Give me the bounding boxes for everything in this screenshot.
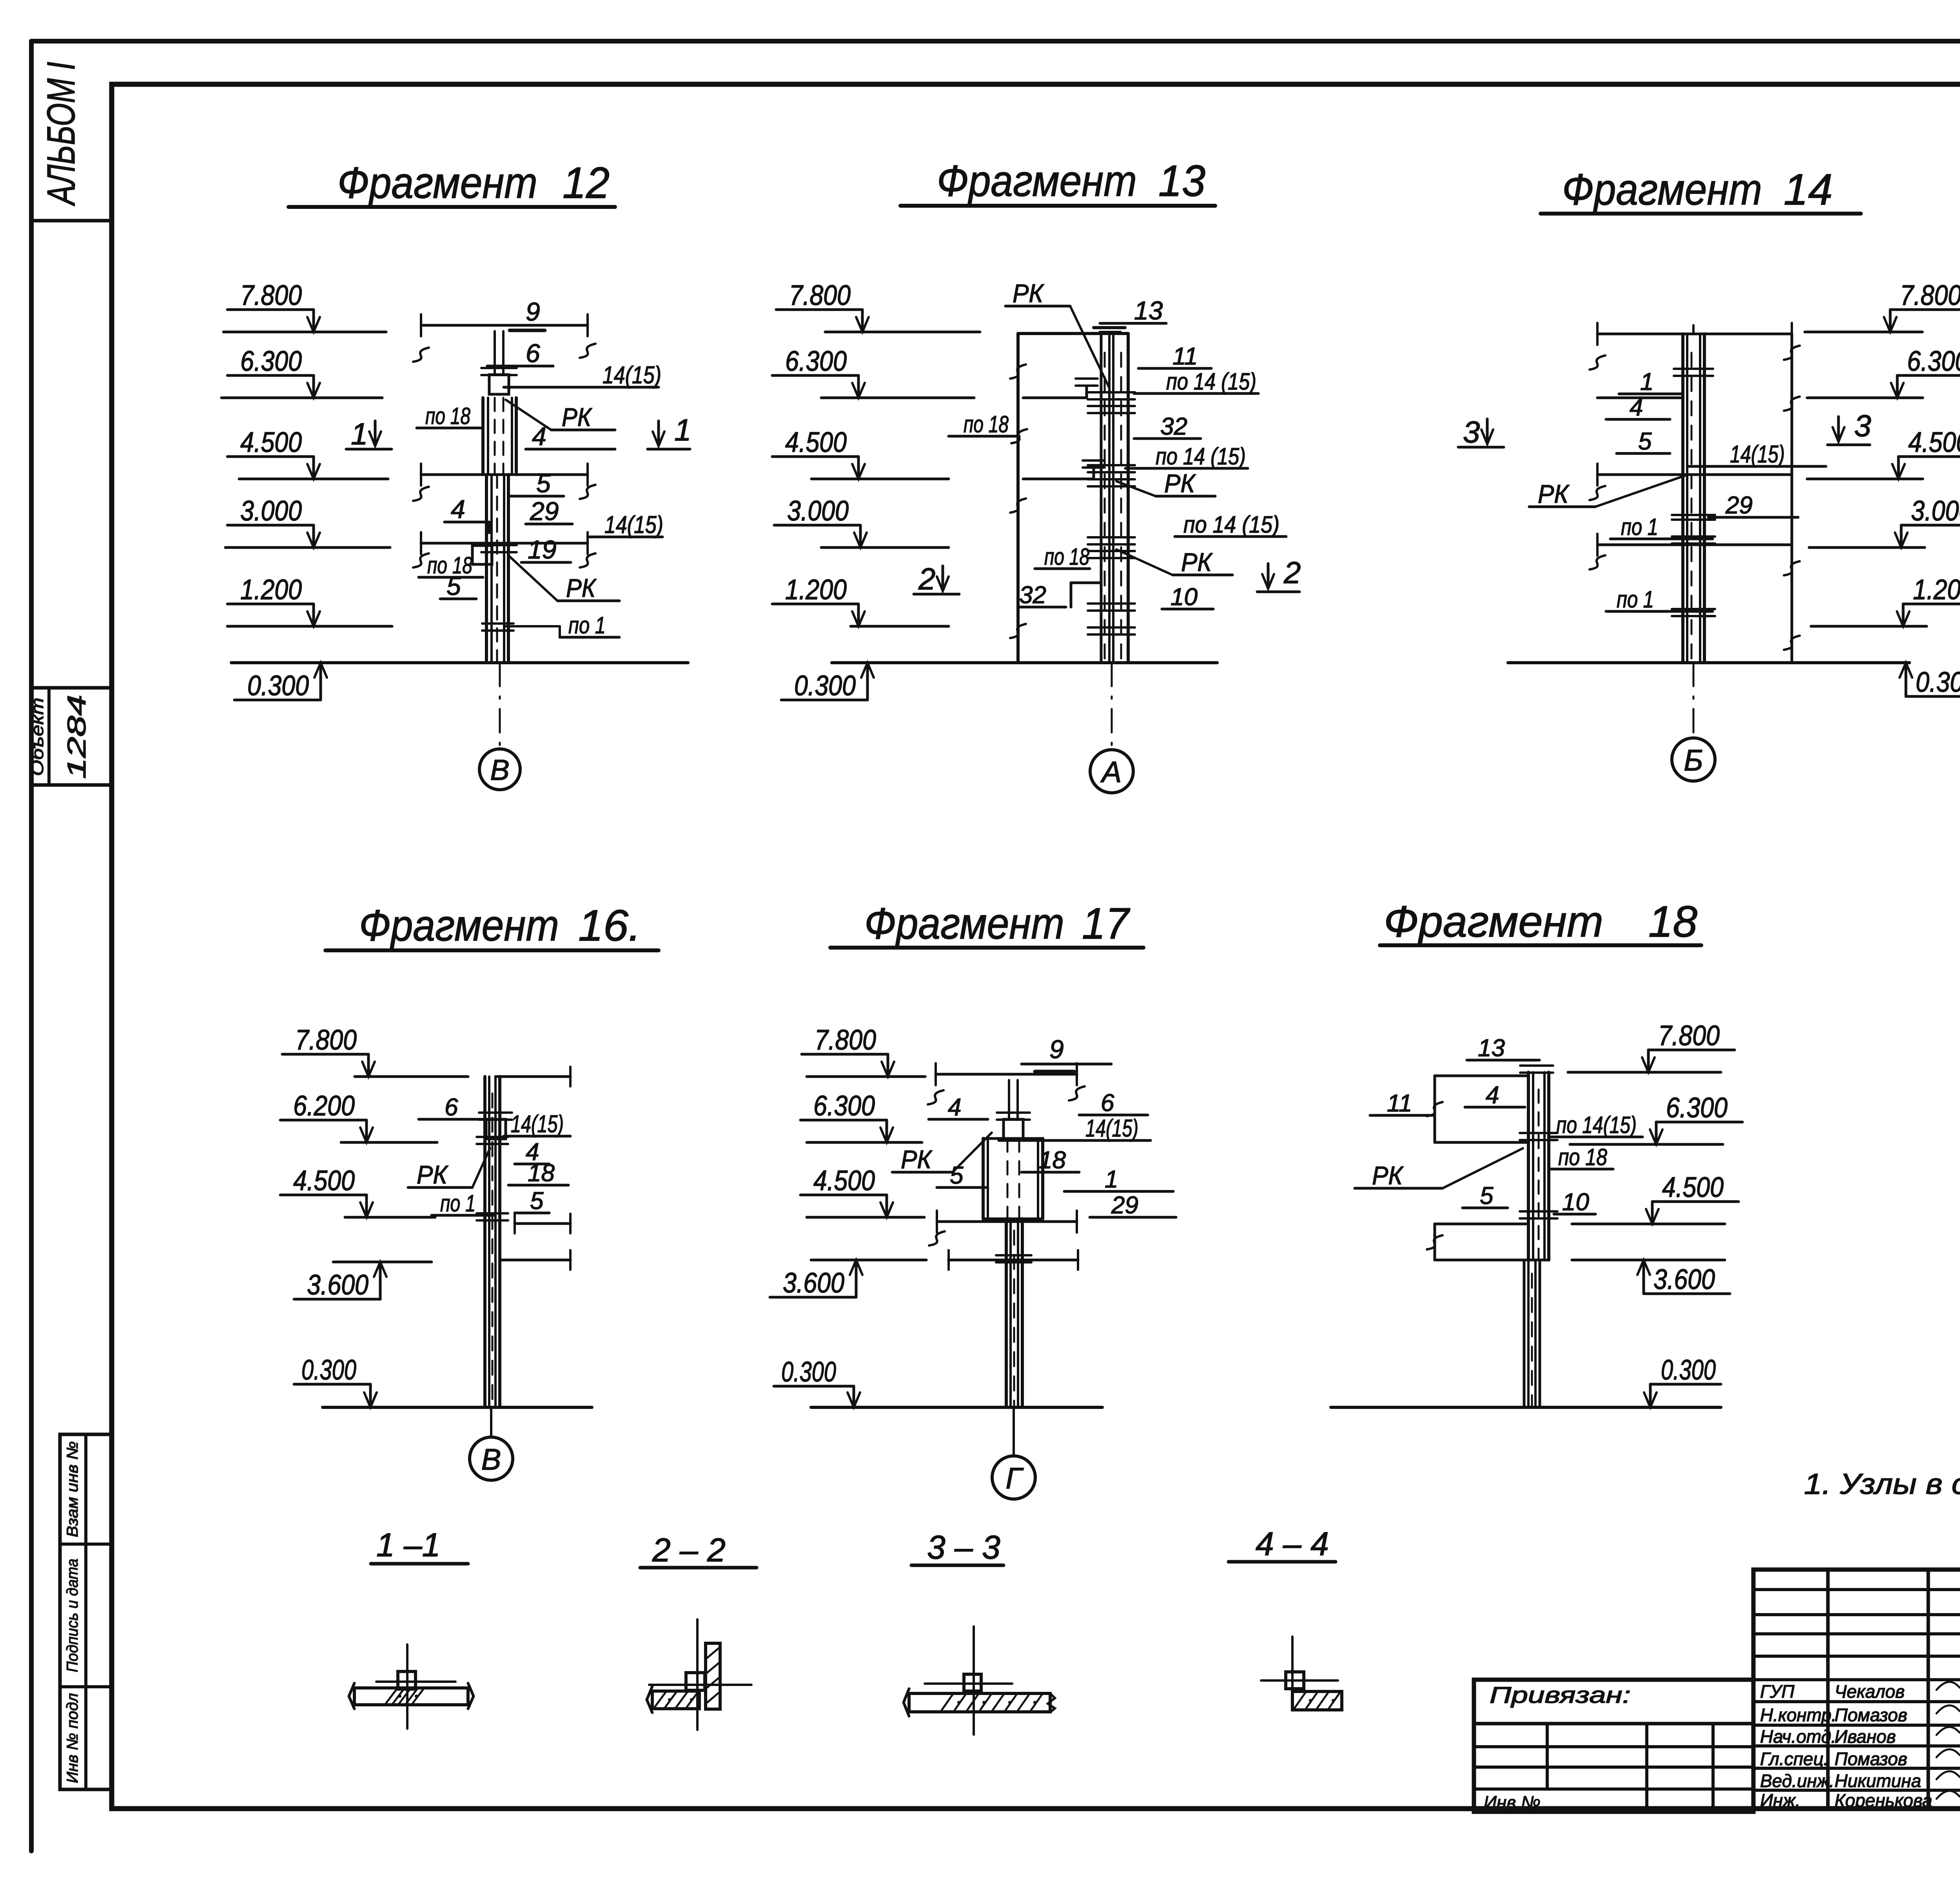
svg-text:Объект: Объект: [28, 698, 47, 776]
svg-text:5: 5: [1638, 428, 1652, 455]
svg-text:7.800: 7.800: [295, 1024, 357, 1056]
svg-text:Инв № подл: Инв № подл: [64, 1693, 81, 1783]
svg-text:Чекалов: Чекалов: [1835, 1681, 1905, 1702]
svg-text:6.300: 6.300: [785, 346, 847, 377]
frag18 level 4.500: [1652, 1200, 1739, 1203]
svg-text:29: 29: [1111, 1192, 1138, 1219]
svg-text:Привязан:: Привязан:: [1490, 1682, 1631, 1708]
svg-text:5: 5: [1480, 1182, 1494, 1209]
svg-text:13: 13: [1158, 156, 1205, 205]
detail 4-4 centerline: [1291, 1637, 1294, 1693]
svg-text:14: 14: [1784, 165, 1833, 214]
svg-text:6.300: 6.300: [813, 1090, 875, 1122]
frag13 axis circle А: [1090, 750, 1133, 793]
frag13 level 7.800: [776, 308, 862, 311]
svg-text:0.300: 0.300: [301, 1354, 356, 1386]
svg-text:Фрагмент: Фрагмент: [1384, 897, 1603, 946]
svg-text:18: 18: [1648, 897, 1697, 946]
svg-text:Б: Б: [1684, 744, 1703, 777]
svg-text:4: 4: [532, 422, 546, 451]
frag17 shelf 3.600: [811, 1259, 926, 1262]
frag16 panel: [483, 1077, 486, 1407]
frag13 level 4.500: [772, 455, 858, 458]
svg-text:14(15): 14(15): [604, 511, 663, 538]
svg-text:32: 32: [1019, 582, 1046, 609]
detail 2-2 centerline: [696, 1619, 699, 1730]
svg-text:по 1: по 1: [1617, 586, 1654, 613]
frag16 level 6.200: [280, 1119, 367, 1122]
frag16 bracket: [486, 1119, 506, 1139]
svg-text:7.800: 7.800: [1658, 1020, 1720, 1051]
svg-text:ГУП: ГУП: [1760, 1681, 1795, 1702]
frag18 level 3.600: [1644, 1293, 1730, 1295]
frag12 lower panel: [485, 475, 488, 663]
detail 1-1 anchor square: [398, 1671, 416, 1689]
frag18 wide panel: [1527, 1072, 1530, 1260]
svg-text:13: 13: [1134, 296, 1163, 325]
svg-text:32: 32: [1160, 413, 1187, 440]
svg-text:13: 13: [1478, 1035, 1505, 1062]
svg-text:4: 4: [948, 1094, 961, 1121]
frag13 level 3.000: [774, 524, 860, 527]
svg-text:РК: РК: [1372, 1161, 1404, 1190]
svg-text:4.500: 4.500: [293, 1165, 355, 1196]
svg-text:Взам инв №: Взам инв №: [64, 1441, 81, 1537]
frag12 level 6.300: [227, 374, 314, 377]
frag12 level 3.000: [227, 524, 314, 527]
svg-text:7.800: 7.800: [1900, 280, 1960, 311]
frag16 top dimension line: [495, 1075, 570, 1078]
frag16 lower tick line: [500, 1259, 570, 1262]
svg-text:по 1: по 1: [568, 612, 606, 638]
signature table name rows: [1753, 1700, 1960, 1703]
svg-text:12: 12: [563, 158, 610, 207]
frag16 ground line: [323, 1406, 592, 1409]
svg-text:4.500: 4.500: [785, 427, 847, 458]
svg-text:Никитина: Никитина: [1835, 1771, 1921, 1791]
svg-text:Иванов: Иванов: [1835, 1726, 1896, 1747]
sidebar object box: [31, 688, 112, 785]
svg-text:7.800: 7.800: [240, 280, 302, 311]
frag13 hook 6300: [1023, 397, 1087, 399]
frag18 narrow panel: [1523, 1260, 1526, 1407]
svg-text:4: 4: [451, 495, 465, 524]
svg-text:1284: 1284: [62, 695, 91, 779]
svg-text:Фрагмент: Фрагмент: [937, 156, 1137, 205]
detail 4-4 slab bar: [1292, 1691, 1342, 1710]
svg-text:0.300: 0.300: [1661, 1354, 1716, 1386]
frag13 hook 4500: [1023, 478, 1094, 480]
detail 3-3 slab bar: [909, 1693, 1050, 1712]
detail 2-2 wall bar vertical: [706, 1643, 720, 1709]
frag14 axis centerline: [1693, 663, 1695, 738]
svg-text:14(15): 14(15): [1085, 1115, 1138, 1142]
frag17 level 7.800: [802, 1053, 888, 1056]
frag14 right dim vertical: [1791, 334, 1793, 663]
sidebar album box: [31, 219, 112, 223]
svg-text:6.300: 6.300: [1666, 1092, 1728, 1124]
frag13 level 1.200: [772, 603, 858, 605]
frag18 level 6.300: [1656, 1121, 1742, 1124]
svg-text:Вед.инж.: Вед.инж.: [1760, 1771, 1834, 1791]
svg-text:3: 3: [1854, 408, 1871, 443]
svg-text:по 18: по 18: [425, 403, 470, 429]
sidebar stamp divider 2: [60, 1685, 111, 1688]
frag18 top-left box: [1435, 1075, 1528, 1077]
frag14 top dimension line: [1597, 333, 1792, 335]
frag13 level 0.300: [781, 699, 867, 702]
svg-text:4.500: 4.500: [240, 427, 302, 458]
frag13 left edge line: [1016, 334, 1020, 663]
frag13 tick cluster 1200: [1088, 602, 1135, 605]
svg-text:14(15): 14(15): [603, 362, 661, 389]
svg-text:4 – 4: 4 – 4: [1256, 1525, 1329, 1562]
svg-text:1: 1: [1105, 1166, 1118, 1193]
svg-text:Помазов: Помазов: [1835, 1749, 1907, 1769]
sidebar stamp divider 1: [60, 1543, 111, 1546]
signature table columns: [1826, 1570, 1830, 1809]
detail 2-2 slab bar: [652, 1691, 699, 1709]
svg-text:14(15): 14(15): [511, 1111, 564, 1138]
svg-text:6.200: 6.200: [293, 1090, 355, 1122]
svg-text:по 18: по 18: [1558, 1144, 1608, 1170]
svg-text:Фрагмент: Фрагмент: [359, 901, 559, 950]
frag12 upper panel: [481, 398, 485, 475]
privyazan divider top: [1474, 1722, 1753, 1726]
frag17 axis circle Г: [992, 1456, 1035, 1499]
detail 1-1 slab bar: [354, 1688, 468, 1705]
frag14 ground line: [1508, 661, 1909, 664]
fragment 17 title underline: [830, 946, 1143, 950]
frag13 tick cluster 6300: [1088, 391, 1135, 393]
svg-text:РК: РК: [1013, 279, 1044, 308]
svg-text:В: В: [481, 1443, 501, 1476]
frag18 bottom-left box: [1435, 1223, 1528, 1225]
svg-text:по 18: по 18: [964, 411, 1009, 437]
svg-text:6.300: 6.300: [1907, 346, 1960, 377]
frag14 level 0.300: [1906, 695, 1960, 698]
svg-text:7.800: 7.800: [815, 1024, 876, 1056]
frag12 section mark 1 right: [657, 421, 660, 445]
outer border left: [29, 41, 34, 1851]
svg-text:5: 5: [950, 1162, 964, 1189]
detail 4-4 axis line: [1261, 1679, 1338, 1682]
svg-text:РК: РК: [566, 573, 597, 602]
svg-text:2: 2: [918, 562, 935, 596]
svg-text:РК: РК: [562, 402, 592, 431]
svg-text:Нач.отд.: Нач.отд.: [1760, 1726, 1836, 1747]
frag12 top dimension line: [421, 324, 588, 327]
svg-text:Коренькова: Коренькова: [1835, 1790, 1932, 1811]
svg-text:1: 1: [674, 413, 691, 447]
svg-text:Фрагмент: Фрагмент: [338, 158, 537, 207]
svg-text:7.800: 7.800: [789, 280, 851, 311]
privyazan columns: [1546, 1724, 1549, 1789]
frag14 lower dimension line: [1597, 544, 1792, 546]
frag13 axis centerline: [1111, 663, 1113, 749]
svg-text:по 1: по 1: [440, 1190, 475, 1216]
frag16 mid dimension line: [515, 1222, 570, 1225]
svg-text:Помазов: Помазов: [1835, 1705, 1907, 1725]
frag18 level 0.300: [1650, 1383, 1721, 1386]
privyazan rows: [1474, 1745, 1753, 1748]
frag13 section mark 2 right: [1267, 564, 1270, 588]
frag14 level 7.800: [1890, 308, 1960, 311]
svg-text:2 – 2: 2 – 2: [652, 1532, 726, 1568]
frag14 level line 6300 inside: [1597, 397, 1683, 399]
frag14 level 4.500: [1898, 455, 1960, 458]
svg-text:6: 6: [445, 1094, 458, 1121]
detail 1-1 axis line: [376, 1680, 456, 1683]
svg-text:0.300: 0.300: [1916, 667, 1960, 698]
svg-text:0.300: 0.300: [247, 670, 309, 702]
svg-text:29: 29: [530, 497, 559, 526]
svg-text:1: 1: [351, 417, 368, 451]
svg-text:2: 2: [1283, 555, 1301, 590]
svg-text:РК: РК: [1538, 479, 1570, 508]
frag12 bracket mid: [472, 546, 492, 564]
svg-text:Гл.спец.: Гл.спец.: [1760, 1749, 1829, 1769]
svg-text:В: В: [490, 754, 509, 786]
svg-text:1 –1: 1 –1: [376, 1526, 441, 1563]
svg-text:3.000: 3.000: [240, 495, 302, 527]
fragment 16 title underline: [325, 948, 659, 952]
svg-text:18: 18: [528, 1160, 555, 1187]
title block outline: [1753, 1570, 1960, 1809]
svg-text:3: 3: [1463, 415, 1480, 449]
svg-text:Фрагмент: Фрагмент: [1562, 165, 1762, 214]
sidebar object divider: [47, 688, 51, 785]
frag12 middle dimension line: [421, 473, 588, 476]
fragment 18 title underline: [1380, 943, 1701, 947]
fragment 14 title underline: [1541, 212, 1861, 216]
frag14 level 6.300: [1897, 374, 1960, 377]
detail 2-2 anchor square: [686, 1673, 705, 1690]
svg-text:1.200: 1.200: [1913, 574, 1960, 605]
frag13 top line: [1018, 332, 1128, 335]
frag14 level 1.200: [1903, 603, 1960, 605]
svg-text:19: 19: [528, 535, 556, 564]
svg-text:3.000: 3.000: [787, 495, 849, 527]
frag18 shelf 3.600: [1572, 1259, 1725, 1262]
frag12 level 0.300: [234, 699, 321, 702]
frag12 lower dimension line: [421, 542, 588, 545]
frag17 top dimension line: [936, 1073, 1077, 1076]
frag13 tick cluster 4500: [1088, 464, 1135, 466]
frag17 level 6.300: [800, 1119, 887, 1122]
svg-text:4.500: 4.500: [1908, 427, 1960, 458]
frag16 axis centerline: [490, 1407, 492, 1437]
fragment 12 title underline: [289, 205, 615, 209]
frag18 ground line: [1331, 1406, 1721, 1409]
frag16 level 3.600: [294, 1298, 380, 1301]
frag14 panel: [1681, 334, 1684, 663]
frag17 bracket top: [1004, 1119, 1023, 1139]
svg-text:4.500: 4.500: [1662, 1172, 1724, 1203]
svg-text:по 1: по 1: [1621, 514, 1658, 540]
svg-text:Г: Г: [1005, 1462, 1024, 1495]
svg-text:3.000: 3.000: [1911, 495, 1960, 527]
svg-text:14(15): 14(15): [1730, 441, 1785, 468]
detail 4-4 anchor square: [1286, 1672, 1304, 1689]
svg-text:3.600: 3.600: [783, 1267, 844, 1299]
frag17 ground line: [811, 1406, 1102, 1409]
svg-text:1: 1: [1640, 368, 1653, 395]
fragment 13 title underline: [900, 204, 1215, 208]
svg-text:Инв.№: Инв.№: [1484, 1792, 1541, 1813]
frag12 bracket top: [489, 375, 509, 394]
frag12 level 7.800: [227, 308, 314, 311]
frag12 axis circle В: [479, 749, 520, 790]
svg-text:6: 6: [1101, 1089, 1114, 1117]
svg-text:Фрагмент: Фрагмент: [864, 899, 1064, 948]
frag16 shelf 3.600: [333, 1261, 432, 1264]
svg-text:по 14 (15): по 14 (15): [1156, 443, 1246, 470]
frag17 level 4.500: [800, 1194, 887, 1196]
svg-text:РК: РК: [1181, 547, 1213, 576]
svg-text:по 14(15): по 14(15): [1556, 1112, 1637, 1138]
frag17 axis centerline: [1013, 1407, 1015, 1456]
frag13 tick cluster 3000: [1088, 536, 1135, 538]
frag16 level 7.800: [282, 1053, 368, 1056]
svg-text:4.500: 4.500: [813, 1165, 875, 1196]
frag17 narrow panel: [1005, 1219, 1008, 1407]
svg-text:4: 4: [1486, 1082, 1499, 1109]
frag16 axis circle В: [470, 1437, 513, 1480]
svg-text:РК: РК: [417, 1160, 448, 1189]
frag14 axis circle Б: [1672, 738, 1715, 781]
svg-text:3.600: 3.600: [1653, 1264, 1715, 1295]
svg-text:Инж.: Инж.: [1760, 1790, 1800, 1811]
svg-text:6.300: 6.300: [240, 346, 302, 377]
svg-text:1.200: 1.200: [240, 574, 302, 605]
frag17 level 0.300: [774, 1385, 854, 1388]
svg-text:17: 17: [1082, 899, 1131, 948]
frag16 level 0.300: [294, 1383, 370, 1386]
frag14 section mark 3 right: [1837, 417, 1840, 441]
svg-text:5: 5: [536, 469, 551, 498]
frag16 level 4.500: [280, 1194, 367, 1196]
detail 3-3 centerline: [973, 1626, 975, 1735]
svg-text:по 14 (15): по 14 (15): [1183, 511, 1279, 538]
svg-text:11: 11: [1172, 343, 1198, 370]
frag12 level 1.200: [227, 603, 314, 605]
frag14 level 3.000: [1901, 524, 1960, 527]
svg-text:по 18: по 18: [1044, 544, 1089, 570]
detail 3-3 anchor square: [964, 1674, 981, 1691]
svg-text:по 14 (15): по 14 (15): [1166, 368, 1256, 395]
svg-text:3.600: 3.600: [307, 1269, 368, 1301]
svg-text:29: 29: [1725, 492, 1753, 519]
detail 3-3 axis line: [925, 1682, 1012, 1685]
svg-text:Н.контр.: Н.контр.: [1760, 1705, 1837, 1725]
outer border top: [31, 39, 1960, 44]
detail 2-2 axis line: [649, 1684, 751, 1686]
frag12 axis centerline: [499, 663, 501, 749]
frag17 level 3.600: [770, 1296, 856, 1299]
frag12 level 4.500: [227, 455, 314, 458]
privyazan box outline: [1474, 1680, 1753, 1812]
frag13 level 6.300: [772, 374, 858, 377]
frag13 panel strip: [1100, 334, 1103, 663]
frag18 level 7.800: [1648, 1049, 1735, 1051]
svg-text:0.300: 0.300: [794, 670, 856, 702]
sidebar stamp divider vertical: [84, 1434, 87, 1789]
svg-text:9: 9: [526, 297, 540, 326]
frag12 ground line: [231, 661, 688, 664]
svg-text:1.200: 1.200: [785, 574, 847, 605]
svg-text:Подпись и дата: Подпись и дата: [64, 1559, 81, 1672]
frag17 wide panel: [982, 1138, 985, 1219]
svg-text:АЛЬБОМ I: АЛЬБОМ I: [39, 62, 83, 207]
svg-text:11: 11: [1387, 1090, 1412, 1117]
svg-text:10: 10: [1562, 1189, 1589, 1216]
frag17 lower tick line: [949, 1259, 1078, 1262]
sidebar stamp box: [60, 1434, 111, 1789]
frag17 mid dimension line: [937, 1220, 1077, 1223]
svg-text:5: 5: [530, 1187, 544, 1215]
svg-text:А: А: [1100, 756, 1122, 789]
svg-text:1. Узлы в сковках – для: 1. Узлы в сковках – для: [1804, 1468, 1960, 1500]
svg-text:3 – 3: 3 – 3: [927, 1529, 1000, 1566]
svg-text:5: 5: [446, 571, 461, 600]
svg-text:10: 10: [1171, 584, 1198, 611]
svg-text:РК: РК: [1164, 469, 1196, 498]
svg-text:РК: РК: [901, 1145, 933, 1174]
svg-text:6: 6: [526, 339, 540, 368]
svg-text:16.: 16.: [578, 901, 641, 950]
signature table top rows: [1753, 1588, 1960, 1591]
svg-text:9: 9: [1049, 1035, 1064, 1064]
frag13 ground line: [832, 661, 1217, 664]
frag14 middle dimension line: [1597, 473, 1792, 476]
svg-text:0.300: 0.300: [781, 1356, 836, 1388]
detail 1-1 centerline: [406, 1644, 408, 1729]
